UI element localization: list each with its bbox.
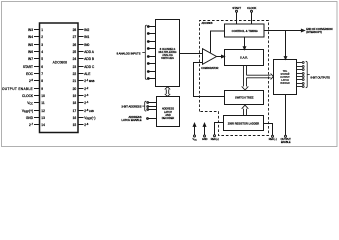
REF(+) terminal and wire: [214, 123, 224, 137]
svg-text:STATE®: STATE®: [281, 73, 290, 76]
comparator: [201, 49, 218, 70]
dashed chip boundary: [200, 21, 269, 136]
pin 9 OUTPUT ENABLE: [2, 87, 43, 91]
svg-text:IN6: IN6: [28, 50, 33, 54]
switch tree block: [225, 91, 264, 105]
label 8 ANALOG INPUTS: [117, 51, 141, 55]
svg-text:7: 7: [41, 72, 43, 76]
svg-text:5: 5: [41, 57, 43, 61]
label 3-BIT ADDRESS: [121, 104, 141, 108]
pin 22 ALE: [73, 72, 91, 76]
pin 27 IN1: [73, 35, 90, 39]
label ADDRESS LATCH ENABLE: [122, 115, 142, 122]
pin 16 VREF(-): [73, 116, 96, 121]
mux to decoder double arrow: [165, 87, 170, 97]
svg-text:2-8 LSB: 2-8 LSB: [84, 109, 94, 113]
svg-text:CONTROL & TIMING: CONTROL & TIMING: [232, 29, 258, 33]
border frame: [2, 2, 338, 147]
svg-text:2-1 MSB: 2-1 MSB: [84, 79, 94, 83]
svg-text:1: 1: [41, 28, 43, 32]
svg-text:15: 15: [73, 123, 77, 127]
svg-text:OUTPUT: OUTPUT: [280, 77, 290, 79]
pin 3 IN5: [28, 43, 43, 47]
svg-text:REF(+): REF(+): [211, 138, 219, 141]
pin 28 IN2: [73, 28, 90, 32]
latch wire to tri-state buffer: [284, 31, 286, 60]
svg-text:START: START: [232, 6, 241, 10]
pin 25 ADD A: [73, 50, 95, 54]
8-bit output terminals: [297, 62, 305, 88]
svg-text:22: 22: [73, 72, 77, 76]
brace 8 analog inputs: [142, 25, 147, 79]
svg-text:20: 20: [73, 87, 77, 91]
svg-text:SWITCH TREE: SWITCH TREE: [235, 96, 254, 100]
svg-text:IN3: IN3: [28, 28, 33, 32]
svg-text:13: 13: [41, 116, 45, 120]
svg-text:27: 27: [73, 35, 77, 39]
pin 14 2^-7: [29, 123, 45, 127]
svg-text:3-BIT ADDRESS: 3-BIT ADDRESS: [121, 104, 141, 108]
svg-text:S.A.R.: S.A.R.: [240, 56, 248, 60]
pin 21 2^-1 MSB: [73, 79, 95, 83]
svg-text:LATCH: LATCH: [281, 79, 289, 82]
svg-text:6: 6: [41, 65, 43, 69]
svg-text:(INTERRUPT): (INTERRUPT): [306, 31, 322, 34]
svg-text:8-BIT OUTPUTS: 8-BIT OUTPUTS: [311, 75, 331, 79]
svg-text:3: 3: [41, 43, 43, 47]
svg-text:10: 10: [41, 94, 45, 98]
svg-text:SWITCHES: SWITCHES: [161, 57, 174, 60]
svg-text:23: 23: [73, 65, 77, 69]
svg-text:OUTPUT ENABLE: OUTPUT ENABLE: [2, 87, 33, 91]
tri-state output latch buffer block: [274, 60, 297, 95]
3-bit address terminals: [147, 102, 157, 111]
pin 11 VCC: [27, 101, 45, 106]
pin 4 IN6: [28, 50, 43, 54]
svg-text:IN1: IN1: [84, 35, 89, 39]
SAR to buffer bus: [247, 74, 274, 80]
EOC wire: [265, 29, 305, 31]
svg-text:9: 9: [41, 87, 43, 91]
svg-text:24: 24: [73, 57, 77, 61]
pin 5 IN7: [28, 57, 43, 61]
svg-text:ALE: ALE: [84, 72, 90, 76]
wire control timing to SAR: [243, 37, 245, 50]
256R resistor ladder block: [224, 116, 264, 131]
svg-text:GND: GND: [202, 138, 208, 141]
svg-text:17: 17: [73, 109, 77, 113]
svg-text:TRI-: TRI-: [283, 71, 288, 73]
svg-text:256R RESISTOR LADDER: 256R RESISTOR LADDER: [228, 121, 260, 125]
pin 17 2^-8 LSB: [73, 109, 94, 113]
svg-text:2: 2: [41, 35, 43, 39]
svg-text:IN5: IN5: [28, 43, 33, 47]
brace 8-bit outputs: [306, 61, 310, 87]
svg-text:IN7: IN7: [28, 57, 33, 61]
pin 1 IN3: [28, 28, 43, 32]
address latch enable terminal: [147, 118, 157, 120]
pin 23 ADD C: [73, 65, 95, 69]
wire switch tree to comparator: [194, 63, 225, 97]
pin 7 EOC: [26, 72, 43, 76]
pin 8 2^-5: [29, 79, 43, 83]
svg-text:LATCH ENABLE: LATCH ENABLE: [122, 118, 142, 122]
address latch and decoder block: [157, 97, 180, 127]
svg-text:8 ANALOG INPUTS: 8 ANALOG INPUTS: [117, 51, 141, 55]
pin 13 GND: [26, 116, 45, 120]
svg-text:ADD C: ADD C: [84, 65, 95, 69]
svg-text:REF(−): REF(−): [269, 138, 277, 141]
VCC supply terminal: [193, 123, 196, 137]
svg-text:EOC: EOC: [26, 72, 34, 76]
svg-text:DECODER: DECODER: [162, 117, 175, 120]
svg-text:IN4: IN4: [28, 35, 33, 39]
SAR block: [225, 50, 264, 66]
svg-text:ADC0808: ADC0808: [202, 22, 213, 25]
pin 6 START: [23, 65, 43, 69]
svg-text:21: 21: [73, 79, 77, 83]
label ADC0808 on boundary: [202, 22, 213, 25]
svg-text:CLOCK: CLOCK: [22, 94, 34, 98]
label OUTPUT ENABLE: [281, 138, 292, 144]
svg-text:26: 26: [73, 43, 77, 47]
svg-text:19: 19: [73, 94, 77, 98]
SAR to switch tree bus: [242, 66, 249, 91]
brace 3-bit address: [142, 101, 146, 111]
svg-text:25: 25: [73, 50, 77, 54]
svg-text:14: 14: [41, 123, 45, 127]
svg-text:GND: GND: [26, 116, 34, 120]
svg-text:START: START: [23, 65, 33, 69]
pin 15 2^-6: [73, 123, 89, 127]
analog multiplexer block: [156, 20, 180, 87]
pin 24 ADD B: [73, 57, 94, 61]
svg-text:ADC0808: ADC0808: [53, 61, 67, 65]
svg-text:11: 11: [41, 101, 45, 105]
svg-text:28: 28: [73, 28, 77, 32]
svg-text:IN2: IN2: [84, 28, 89, 32]
output enable wire: [285, 95, 287, 138]
REF(-) terminal and wire: [264, 124, 274, 138]
svg-text:BUFFER: BUFFER: [280, 83, 290, 85]
svg-text:IN0: IN0: [84, 43, 89, 47]
svg-text:8: 8: [41, 79, 43, 83]
svg-text:18: 18: [73, 101, 77, 105]
pin 20 2^-2: [73, 87, 89, 91]
8 analog input terminals: [147, 26, 155, 80]
svg-text:4: 4: [41, 50, 43, 54]
pin 19 2^-3: [73, 94, 89, 98]
svg-text:ADD A: ADD A: [84, 50, 94, 54]
ladder to switch tree arrow: [242, 105, 249, 115]
pin 12 VREF(+): [22, 109, 45, 114]
svg-text:16: 16: [73, 116, 77, 120]
wire mux to comparator: [180, 53, 203, 55]
wire comparator to control timing: [211, 31, 225, 53]
pin 18 2^-4: [73, 101, 89, 105]
pin 10 CLOCK: [22, 94, 45, 98]
label END OF CONVERSION (INTERRUPT): [306, 28, 333, 34]
svg-text:CLOCK: CLOCK: [247, 6, 256, 10]
START terminal: [236, 10, 238, 24]
svg-text:ADD B: ADD B: [84, 57, 94, 61]
CLOCK terminal: [251, 10, 253, 24]
IC U1 ADC0808 DIP-28 body: [40, 23, 79, 133]
control and timing block: [225, 24, 265, 37]
pin 26 IN0: [73, 43, 90, 47]
svg-text:ENABLE: ENABLE: [281, 141, 291, 144]
svg-text:COMPARATOR: COMPARATOR: [201, 67, 218, 70]
svg-text:12: 12: [41, 109, 45, 113]
GND supply terminal: [203, 123, 206, 137]
pin 2 IN4: [28, 35, 43, 39]
wire comparator to SAR: [217, 55, 225, 57]
label 8-BIT OUTPUTS: [311, 75, 331, 79]
